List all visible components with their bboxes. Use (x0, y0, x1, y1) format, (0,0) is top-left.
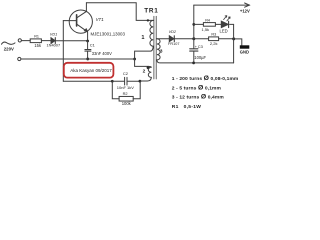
svg-text:TR1: TR1 (144, 8, 158, 15)
svg-text:+12V: +12V (240, 8, 250, 13)
svg-text:220V: 220V (4, 47, 14, 52)
wire +12V arrow (194, 4, 250, 6)
capacitor C1 (87, 41, 89, 49)
transformer TR1 winding 2 (148, 66, 151, 77)
LED diode (221, 21, 228, 27)
resistor R1 (30, 39, 41, 43)
svg-text:1 - 200 turns Ø 0,08-0,1mm: 1 - 200 turns Ø 0,08-0,1mm (172, 75, 239, 82)
wire base branch vertical (62, 21, 64, 82)
svg-text:3 - 12 turns Ø 0,4mm: 3 - 12 turns Ø 0,4mm (172, 94, 225, 101)
AC source squiggle (2, 42, 16, 44)
wire R1 to VD1 (41, 40, 51, 42)
svg-text:FR107: FR107 (168, 42, 179, 46)
terminal X1 top (18, 39, 21, 42)
svg-text:C3: C3 (198, 44, 204, 49)
svg-text:Aka Kasyan 09/2017: Aka Kasyan 09/2017 (70, 68, 112, 73)
node rail-TR junction (133, 58, 136, 61)
svg-text:R4: R4 (205, 18, 210, 22)
svg-text:1: 1 (141, 35, 144, 41)
wire VD1 to emitter node (55, 40, 87, 42)
terminal X2 bottom (18, 57, 21, 60)
wire R4 to LED (215, 23, 221, 25)
wire emitter down (87, 32, 89, 41)
transformer TR1 winding 1 (150, 20, 153, 46)
node emitter/VD1/C1 (86, 40, 89, 43)
wire R4 branch (194, 23, 204, 25)
svg-text:R1: R1 (34, 35, 39, 39)
diode VD2 (169, 36, 174, 42)
wire top rail collector to TR1 (86, 3, 153, 21)
svg-text:C1: C1 (90, 43, 96, 48)
svg-text:C2: C2 (123, 71, 129, 76)
svg-text:LED: LED (220, 28, 228, 33)
resistor R3 (209, 37, 219, 41)
wire bottom rail (21, 58, 135, 60)
node R4 branch (192, 23, 195, 26)
diode VD1 (51, 38, 55, 44)
wire winding2 bottom to C2 node (140, 77, 151, 81)
wire VD2 to N1 (174, 38, 194, 40)
wire LED to column (230, 23, 234, 25)
transistor VT1 (69, 10, 92, 33)
transformer TR1 winding 3 (157, 39, 160, 60)
svg-text:VD2: VD2 (169, 30, 177, 34)
capacitor C3 (193, 39, 195, 49)
node C3 bottom (192, 62, 195, 65)
wire terminal1 to R1 (21, 40, 30, 42)
wire node to GND block (234, 39, 242, 45)
svg-text:GND: GND (240, 49, 249, 54)
red marker annotation box (64, 63, 114, 78)
node winding2 dot (147, 66, 150, 69)
svg-text:1,5k: 1,5k (202, 27, 210, 32)
capacitor C2 (112, 80, 124, 82)
wire winding3 bottom (157, 60, 234, 63)
svg-text:100µF: 100µF (194, 55, 206, 60)
node primary dot (147, 19, 149, 21)
node output minus (232, 37, 235, 40)
wire collector up (85, 3, 87, 12)
svg-text:33nF 400V: 33nF 400V (92, 51, 112, 56)
wire winding1 bottom (135, 46, 154, 59)
svg-text:2: 2 (143, 68, 146, 74)
svg-text:10nF 1kV: 10nF 1kV (117, 85, 134, 90)
svg-text:2,2k: 2,2k (210, 41, 218, 46)
wire +12V vertical (193, 5, 195, 39)
wire winding3 top to VD2 (157, 38, 169, 40)
node N1 (192, 37, 195, 40)
GND terminal block (240, 45, 250, 48)
svg-text:R2: R2 (123, 91, 128, 96)
wire rail to winding 2 (135, 59, 149, 66)
svg-text:MJE13001,13003: MJE13001,13003 (91, 31, 126, 36)
svg-text:100k: 100k (122, 101, 132, 106)
wire base horizontal (63, 20, 76, 22)
node C2 left (111, 80, 114, 83)
node C2 right (139, 80, 142, 83)
svg-text:1N4007: 1N4007 (47, 42, 61, 47)
node C1-rail (86, 58, 89, 61)
wire N1 to R3 (194, 38, 209, 40)
svg-text:2 - 5 turns Ø 0,1mm: 2 - 5 turns Ø 0,1mm (172, 85, 222, 92)
transformer core (153, 16, 155, 79)
svg-text:3: 3 (160, 49, 163, 54)
svg-text:VD1: VD1 (50, 33, 57, 37)
svg-text:15k: 15k (34, 43, 42, 48)
svg-text:R3: R3 (211, 32, 216, 36)
svg-text:VT1: VT1 (96, 17, 105, 22)
wire R3 to out node (219, 38, 234, 40)
wire feedback horizontal (63, 80, 112, 82)
svg-text:R1 0,5-1W: R1 0,5-1W (172, 104, 201, 110)
resistor R4 (203, 23, 215, 27)
LED arrows (224, 16, 227, 20)
resistor R2 loop (112, 81, 119, 99)
wire LED column (233, 24, 235, 63)
